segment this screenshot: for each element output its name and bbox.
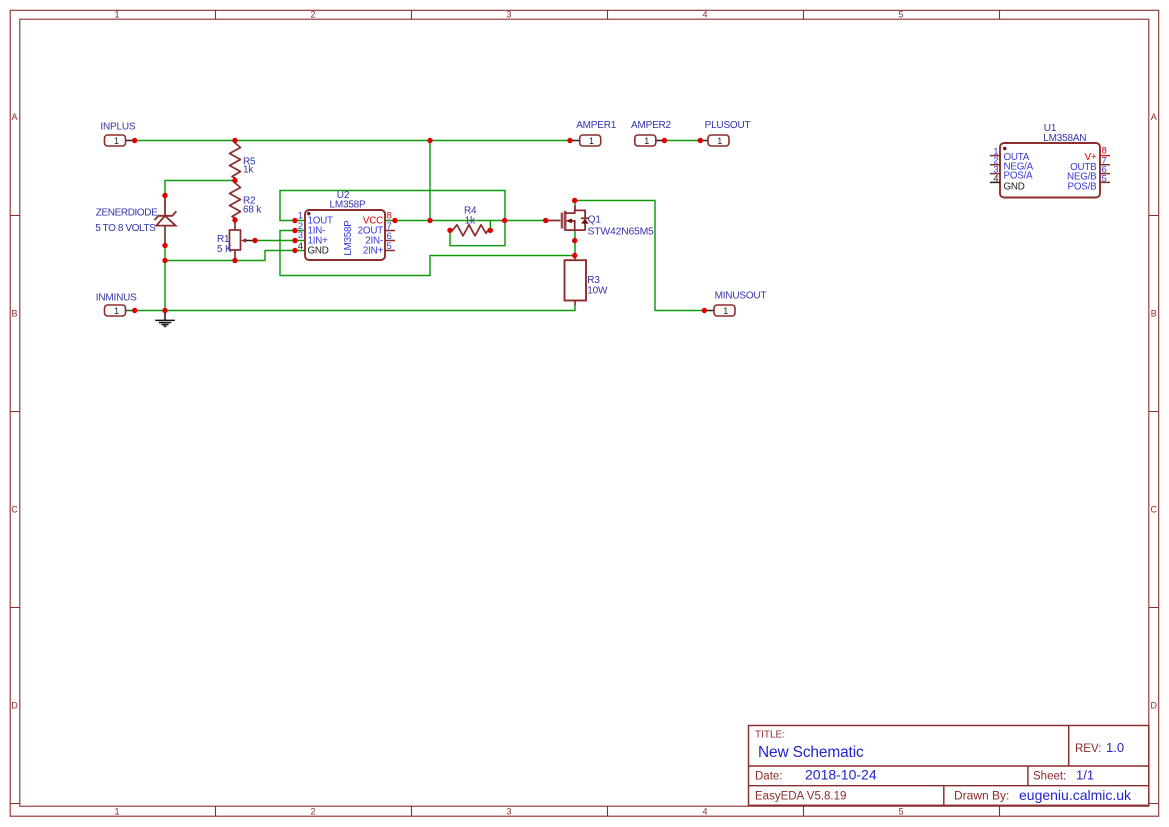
U1 pin names (1004, 152, 1098, 193)
wire Q1 source to R3 node (574, 241, 576, 256)
wire vertical branch INPLUS to VCC line (429, 141, 431, 221)
svg-text:1k: 1k (465, 216, 476, 227)
svg-text:Date:: Date: (755, 771, 783, 783)
junction INPLUS port pin (132, 138, 137, 143)
U1 reference labels (1043, 123, 1086, 144)
wire pot bottom node to U2 pin4 (165, 251, 295, 261)
wire drop to R4 right (489, 221, 491, 231)
resistor R5 (230, 141, 241, 181)
junction dots (132, 138, 707, 313)
port AMPER2 (635, 135, 665, 146)
resistor R2 (230, 181, 241, 221)
wire Q1 source stub (574, 231, 576, 241)
title block border (749, 726, 1150, 806)
junction MINUSOUT port pin (702, 308, 707, 313)
U2 pin numbers (298, 211, 392, 253)
svg-text:D: D (1151, 701, 1158, 711)
svg-text:5: 5 (387, 241, 392, 252)
svg-text:ZENERDIODE: ZENERDIODE (96, 208, 158, 219)
svg-text:1: 1 (644, 136, 649, 146)
svg-text:1: 1 (717, 136, 722, 146)
top ruler ticks (216, 10, 1000, 19)
wire pot wiper to U2 pin3 (255, 240, 295, 242)
svg-text:New Schematic: New Schematic (758, 744, 864, 761)
junction INPLUS branch (427, 138, 432, 143)
svg-text:68 k: 68 k (243, 205, 262, 216)
zener diode ZENERDIODE (155, 196, 177, 246)
svg-text:GND: GND (308, 245, 329, 256)
junction PLUSOUT port pin (698, 138, 703, 143)
svg-text:4: 4 (702, 806, 707, 816)
port INMINUS (105, 305, 135, 316)
junction R4 left (447, 228, 452, 233)
svg-text:1: 1 (114, 10, 119, 20)
junction node R3 top (572, 253, 577, 258)
wire U2 left pin stubs (295, 221, 305, 251)
wire U2 pin2 to source node (280, 231, 575, 276)
U1 pin numbers (993, 146, 1107, 185)
junction R5 top (232, 138, 237, 143)
svg-text:EasyEDA V5.8.19: EasyEDA V5.8.19 (755, 791, 846, 803)
svg-text:3: 3 (506, 10, 511, 20)
svg-text:5 K: 5 K (217, 244, 232, 255)
resistor R4 (450, 225, 490, 236)
wire Q1 drain stub (574, 201, 576, 207)
U2 pin names (308, 215, 384, 256)
svg-text:LM358P: LM358P (343, 220, 354, 256)
svg-text:3: 3 (506, 806, 511, 816)
wire U2 pin8 VCC to Q1 gate (395, 220, 546, 222)
svg-text:1: 1 (298, 211, 303, 222)
svg-text:INPLUS: INPLUS (100, 122, 135, 133)
svg-text:POS/B: POS/B (1068, 182, 1098, 193)
svg-text:D: D (11, 701, 18, 711)
wire AMPER2 to PLUSOUT (664, 140, 700, 142)
junction VCC line cross (427, 218, 432, 223)
port PLUSOUT (700, 135, 729, 146)
wire INMINUS to R3 bottom (135, 305, 575, 311)
port MINUSOUT (704, 305, 735, 316)
svg-text:TITLE:: TITLE: (755, 730, 785, 741)
junction AMPER1 port pin (567, 138, 572, 143)
junction AMPER2 port pin (662, 138, 667, 143)
svg-text:A: A (11, 112, 17, 122)
wire zener anode down to ground node (164, 246, 166, 311)
svg-text:PLUSOUT: PLUSOUT (705, 120, 751, 131)
right ruler ticks (1149, 216, 1159, 804)
junction INMINUS port pin (132, 308, 137, 313)
svg-text:4: 4 (993, 174, 998, 185)
ground symbol (155, 311, 175, 327)
wire U2 pin8 stub (385, 220, 395, 222)
port INPLUS (105, 135, 135, 146)
svg-text:B: B (1151, 309, 1157, 319)
svg-text:4: 4 (298, 241, 303, 252)
svg-text:STW42N65M5: STW42N65M5 (588, 227, 655, 238)
svg-text:INMINUS: INMINUS (96, 293, 137, 304)
svg-text:2: 2 (310, 806, 315, 816)
svg-text:5: 5 (898, 806, 903, 816)
svg-text:LM358AN: LM358AN (1043, 133, 1086, 144)
resistor R3 (565, 256, 587, 306)
svg-text:C: C (11, 505, 18, 515)
junction node left rail (162, 258, 167, 263)
svg-text:REV:: REV: (1075, 743, 1101, 755)
svg-text:1.0: 1.0 (1106, 740, 1124, 755)
svg-text:2: 2 (310, 10, 315, 20)
junction Q1 drain (572, 198, 577, 203)
svg-text:5: 5 (898, 10, 903, 20)
left ruler ticks (10, 216, 20, 804)
svg-text:8: 8 (387, 211, 392, 222)
svg-text:2018-10-24: 2018-10-24 (805, 767, 877, 783)
wire zener top to R5 bottom (165, 181, 235, 196)
svg-text:5: 5 (1102, 174, 1107, 185)
SCHEMATIC (95, 120, 1110, 326)
svg-text:B: B (11, 309, 17, 319)
transistor Q1 STW42N65M5 (546, 206, 589, 231)
svg-text:LM358P: LM358P (329, 200, 366, 211)
junction U2 pin3 (292, 238, 297, 243)
title block text (755, 730, 1101, 803)
svg-text:AMPER1: AMPER1 (576, 120, 617, 131)
junction Q1 gate (543, 218, 548, 223)
wire U2 pin1 feedback loop to R4 left (280, 191, 505, 246)
wire net INPLUS top (135, 140, 570, 142)
svg-text:MINUSOUT: MINUSOUT (715, 291, 767, 302)
bottom ruler ticks (216, 806, 1000, 816)
svg-text:1: 1 (589, 136, 594, 146)
svg-text:1: 1 (114, 306, 119, 316)
svg-text:3: 3 (298, 230, 303, 241)
svg-text:A: A (1151, 112, 1157, 122)
svg-text:1k: 1k (243, 165, 254, 176)
svg-text:5 TO 8 VOLTS: 5 TO 8 VOLTS (95, 223, 156, 234)
svg-text:Q1: Q1 (588, 214, 602, 225)
svg-text:AMPER2: AMPER2 (631, 120, 672, 131)
junction ground node (162, 308, 167, 313)
svg-text:POS/A: POS/A (1004, 170, 1034, 181)
junction R2/R1 (232, 217, 237, 222)
junction U2 pin8 (392, 218, 397, 223)
svg-text:eugeniu.calmic.uk: eugeniu.calmic.uk (1019, 787, 1132, 803)
op-amp U1 LM358AN (990, 143, 1110, 198)
junction R1 wiper (252, 238, 257, 243)
svg-text:1: 1 (723, 306, 728, 316)
svg-text:1: 1 (114, 136, 119, 146)
port AMPER1 (570, 135, 601, 146)
junction R4 right (488, 228, 493, 233)
svg-text:1: 1 (114, 806, 119, 816)
svg-text:4: 4 (702, 10, 707, 20)
junction U2 pin2 (292, 228, 297, 233)
op-amp U2 LM358P (305, 210, 395, 260)
svg-text:10W: 10W (587, 285, 608, 296)
wire Q1 drain to MINUSOUT (575, 201, 704, 311)
junction feedback cross (502, 218, 507, 223)
junction zener anode (162, 243, 167, 248)
junction U2 pin1 (292, 218, 297, 223)
svg-text:GND: GND (1004, 182, 1025, 193)
junction R1 bottom (232, 258, 237, 263)
junction R5/R2 (232, 178, 237, 183)
svg-text:C: C (1151, 505, 1158, 515)
junction Q1 source (572, 238, 577, 243)
potentiometer R1 (230, 220, 256, 261)
svg-text:2IN+: 2IN+ (363, 245, 384, 256)
junction zener cathode (162, 193, 167, 198)
svg-text:1/1: 1/1 (1076, 768, 1094, 783)
svg-text:Drawn By:: Drawn By: (954, 789, 1009, 803)
junction U2 pin4 (292, 248, 297, 253)
svg-text:Sheet:: Sheet: (1033, 771, 1066, 783)
U2 reference labels (329, 190, 366, 211)
